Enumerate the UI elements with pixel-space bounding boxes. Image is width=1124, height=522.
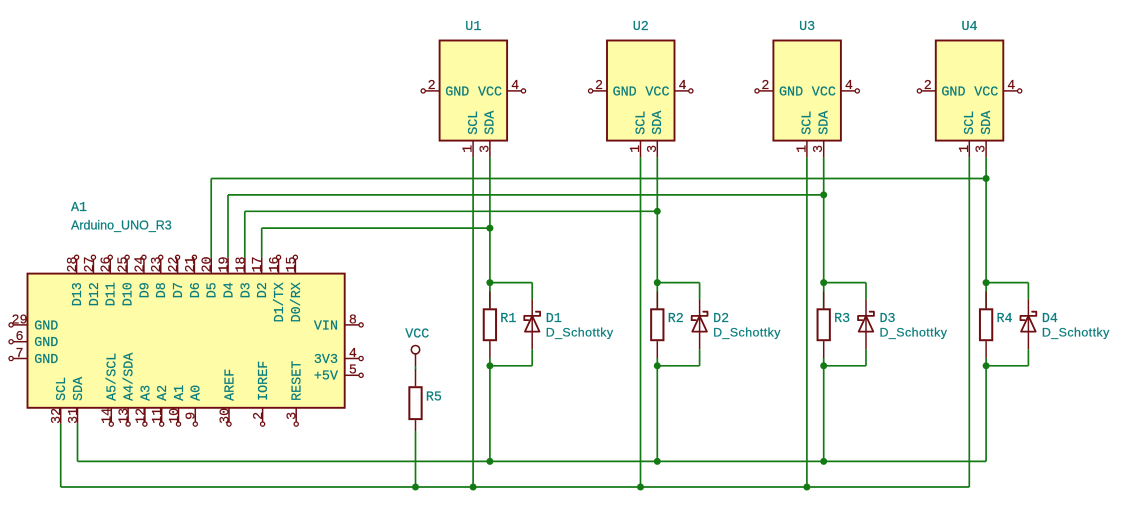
IC U4 body (936, 41, 1004, 141)
svg-text:5: 5 (349, 364, 357, 379)
U2 pin 3 (SDA) bottom (646, 110, 666, 158)
svg-text:18: 18 (234, 256, 249, 272)
wire D2 net: A1 pin17 to U1 SDA horizontal (262, 227, 490, 229)
wire D2 net: A1 pin17 to U1 SDA vertical (261, 228, 263, 258)
U4 reference label (962, 20, 978, 35)
wire U1 node down to SDA bus (489, 366, 491, 462)
wire node to D2 top (657, 283, 699, 300)
U2 pin 4 (VCC) right (645, 79, 693, 100)
resistor R2 (651, 283, 663, 366)
svg-text:31: 31 (67, 408, 82, 424)
svg-text:GND: GND (445, 85, 469, 100)
wire SDA bus horizontal (78, 460, 987, 462)
svg-text:GND: GND (34, 319, 58, 334)
A1 value Arduino_UNO_R3 (71, 219, 172, 233)
junction SDA bus at (824,461) (820, 458, 827, 465)
wire U3 SDA pin down to node (823, 157, 825, 282)
svg-text:U2: U2 (633, 20, 649, 35)
svg-text:A4/SDA: A4/SDA (123, 352, 138, 401)
D1 value D_Schottky (546, 326, 614, 340)
diode D2 (Schottky) (692, 299, 708, 349)
svg-text:9: 9 (185, 412, 200, 420)
svg-text:12: 12 (134, 408, 149, 424)
svg-text:R4: R4 (997, 312, 1013, 327)
U2 pin 2 (GND) left (589, 79, 637, 100)
svg-text:2: 2 (924, 79, 932, 94)
svg-text:D3: D3 (239, 282, 254, 298)
junction SCL bus at (640,487) (637, 484, 644, 491)
IC U2 body (607, 41, 675, 141)
svg-text:SCL: SCL (55, 377, 70, 401)
svg-text:U1: U1 (465, 20, 481, 35)
junction R3 top node (820, 279, 827, 286)
svg-text:GND: GND (34, 353, 58, 368)
A1 pin 8 (VIN) right (314, 313, 363, 334)
svg-text:7: 7 (15, 347, 23, 362)
wire VCC to R5 (415, 366, 417, 370)
U3 reference label (799, 20, 815, 35)
wire U2 node down to SDA bus (656, 366, 658, 462)
wire U4 SCL pin down to SCL bus (968, 157, 970, 487)
svg-text:VCC: VCC (974, 85, 998, 100)
wire D3 bottom to node (824, 349, 866, 366)
svg-text:A5/SCL: A5/SCL (106, 353, 121, 401)
A1 pin 30 (AREF) bottom (218, 369, 238, 426)
svg-text:19: 19 (217, 256, 232, 272)
wire SCL net from A1 pin32 down (60, 424, 62, 487)
svg-text:D4: D4 (222, 282, 237, 298)
wire node to D1 top (490, 283, 532, 300)
svg-text:1: 1 (795, 145, 810, 153)
resistor R4 (980, 283, 992, 366)
U1 pin 1 (SCL) bottom (462, 111, 482, 158)
svg-text:1: 1 (958, 145, 973, 153)
A1 pin 16 (D1/TX) top (268, 255, 288, 322)
svg-text:SDA: SDA (484, 110, 499, 135)
D2 value D_Schottky (713, 326, 781, 340)
svg-text:2: 2 (428, 79, 436, 94)
junction R1 top node (486, 279, 493, 286)
svg-text:RESET: RESET (291, 361, 306, 401)
diode D4 (Schottky) (1021, 299, 1037, 349)
svg-text:D5: D5 (206, 282, 221, 298)
svg-text:R1: R1 (500, 312, 516, 327)
svg-text:29: 29 (11, 313, 27, 328)
svg-text:R2: R2 (668, 312, 684, 327)
svg-text:A1: A1 (71, 201, 87, 216)
IC U1 body (440, 41, 508, 141)
svg-text:D0/RX: D0/RX (290, 282, 305, 322)
svg-text:D_Schottky: D_Schottky (1042, 326, 1110, 340)
diode D1 (Schottky) (524, 299, 540, 349)
U1 pin 3 (SDA) bottom (478, 110, 498, 158)
svg-text:VCC: VCC (812, 85, 836, 100)
svg-text:4: 4 (511, 79, 519, 94)
svg-text:2: 2 (595, 79, 603, 94)
svg-text:GND: GND (779, 85, 803, 100)
power symbol VCC (405, 328, 429, 367)
svg-text:A3: A3 (139, 385, 154, 401)
svg-text:VCC: VCC (405, 328, 429, 343)
svg-text:D_Schottky: D_Schottky (880, 326, 948, 340)
junction R4 bottom node (983, 362, 990, 369)
svg-text:D13: D13 (71, 282, 86, 306)
svg-text:3V3: 3V3 (314, 353, 338, 368)
svg-text:3: 3 (478, 145, 493, 153)
svg-text:D9: D9 (138, 282, 153, 298)
wire U2 SDA pin down to node (656, 157, 658, 282)
svg-text:AREF: AREF (223, 369, 238, 401)
A1 pin 21 (D6) top (184, 255, 204, 298)
svg-text:GND: GND (613, 85, 637, 100)
svg-text:3: 3 (812, 145, 827, 153)
wire SCL bus horizontal (61, 486, 970, 488)
wire D3 net: A1 pin18 to U2 SDA horizontal (245, 210, 658, 212)
svg-text:A0: A0 (190, 385, 205, 401)
svg-text:3: 3 (286, 412, 301, 420)
svg-text:32: 32 (50, 408, 65, 424)
A1 pin 26 (D11) top (100, 255, 120, 306)
svg-text:4: 4 (845, 79, 853, 94)
svg-text:4: 4 (678, 79, 686, 94)
wire U4 node down to SDA bus (985, 366, 987, 462)
wire D4 net: A1 pin19 to U3 SDA vertical (227, 195, 229, 258)
svg-text:D10: D10 (121, 282, 136, 306)
wire D4 net: A1 pin19 to U3 SDA horizontal (228, 194, 824, 196)
D3 value D_Schottky (880, 326, 948, 340)
U2 pin 1 (SCL) bottom (629, 111, 649, 158)
svg-text:1: 1 (462, 145, 477, 153)
svg-text:D7: D7 (172, 282, 187, 298)
U4 pin 2 (GND) left (917, 79, 965, 100)
junction at (490,228) (486, 225, 493, 232)
junction R2 bottom node (654, 362, 661, 369)
svg-text:SCL: SCL (963, 111, 978, 135)
svg-text:D12: D12 (88, 282, 103, 306)
svg-text:GND: GND (941, 85, 965, 100)
U4 pin 1 (SCL) bottom (958, 111, 978, 158)
svg-text:4: 4 (349, 347, 357, 362)
wire node to D3 top (824, 283, 866, 300)
svg-text:R5: R5 (426, 390, 442, 405)
U1 reference label (465, 20, 481, 35)
A1 pin 22 (D7) top (167, 255, 187, 298)
resistor R5 (409, 369, 421, 431)
svg-text:10: 10 (168, 408, 183, 424)
A1 pin 31 (SDA) bottom (67, 376, 87, 424)
D4 value D_Schottky (1042, 326, 1110, 340)
svg-text:14: 14 (101, 408, 116, 424)
svg-text:SDA: SDA (651, 110, 666, 135)
A1 pin 14 (A5/SCL) bottom (101, 353, 121, 427)
junction at (986,178) (983, 175, 990, 182)
A1 pin 15 (D0/RX) top (285, 255, 305, 322)
A1 pin 20 (D5) top (201, 256, 221, 298)
svg-text:11: 11 (151, 408, 166, 424)
U1 pin 2 (GND) left (421, 79, 469, 100)
svg-text:D_Schottky: D_Schottky (713, 326, 781, 340)
D1 label (546, 312, 562, 327)
svg-text:VCC: VCC (645, 85, 669, 100)
wire D4 bottom to node (986, 349, 1028, 366)
A1 pin 27 (D12) top (83, 255, 103, 306)
A1 pin 18 (D3) top (234, 256, 254, 298)
wire U3 SCL pin down to SCL bus (806, 157, 808, 487)
svg-text:6: 6 (15, 330, 23, 345)
svg-text:SDA: SDA (72, 376, 87, 401)
svg-text:GND: GND (34, 336, 58, 351)
svg-text:20: 20 (201, 256, 216, 272)
svg-text:D_Schottky: D_Schottky (546, 326, 614, 340)
IC U3 body (773, 41, 841, 141)
junction R4 top node (983, 279, 990, 286)
svg-text:SCL: SCL (801, 111, 816, 135)
svg-text:1: 1 (629, 145, 644, 153)
A1 pin 6 (GND) left (9, 330, 58, 351)
R3 label (834, 312, 850, 327)
svg-text:D1/TX: D1/TX (273, 282, 288, 322)
D2 label (713, 312, 729, 327)
svg-text:SDA: SDA (980, 110, 995, 135)
junction R5 at SCL bus (412, 484, 419, 491)
svg-text:3: 3 (646, 145, 661, 153)
wire U4 SDA pin down to node (985, 157, 987, 282)
svg-text:VIN: VIN (314, 319, 338, 334)
R4 label (997, 312, 1013, 327)
junction R3 bottom node (820, 362, 827, 369)
junction at (824,195) (820, 191, 827, 198)
Arduino A1 body (28, 274, 345, 408)
A1 pin 19 (D4) top (217, 256, 237, 298)
wire U1 SDA pin down to node (489, 157, 491, 282)
A1 pin 10 (A1) bottom (168, 385, 188, 426)
A1 pin 28 (D13) top (66, 255, 86, 306)
svg-text:4: 4 (1007, 79, 1015, 94)
svg-text:SDA: SDA (818, 110, 833, 135)
wire U1 SCL pin down to SCL bus (472, 157, 474, 487)
U3 pin 4 (VCC) right (812, 79, 860, 100)
svg-text:13: 13 (118, 408, 133, 424)
svg-text:2: 2 (761, 79, 769, 94)
D3 label (880, 312, 896, 327)
A1 pin 12 (A3) bottom (134, 385, 154, 426)
A1 reference label (71, 201, 87, 216)
U1 pin 4 (VCC) right (478, 79, 526, 100)
diode D3 (Schottky) (858, 299, 874, 349)
wire D1 bottom to node (490, 349, 532, 366)
svg-text:U4: U4 (962, 20, 978, 35)
A1 pin 23 (D8) top (150, 255, 170, 298)
resistor R1 (484, 283, 496, 366)
junction at (657,211) (654, 208, 661, 215)
A1 pin 11 (A2) bottom (151, 385, 171, 426)
wire R5 down to SCL bus (415, 431, 417, 487)
svg-text:U3: U3 (799, 20, 815, 35)
svg-text:VCC: VCC (478, 85, 502, 100)
A1 pin 17 (D2) top (251, 256, 271, 298)
U3 pin 3 (SDA) bottom (812, 110, 832, 158)
U3 pin 2 (GND) left (755, 79, 803, 100)
wire U3 node down to SDA bus (823, 366, 825, 462)
U4 pin 3 (SDA) bottom (975, 110, 995, 158)
U2 reference label (633, 20, 649, 35)
A1 pin 3 (RESET) bottom (286, 361, 306, 426)
svg-text:A1: A1 (173, 385, 188, 401)
junction SDA bus at (490,461) (486, 458, 493, 465)
junction SCL bus at (473,487) (470, 484, 477, 491)
A1 pin 13 (A4/SDA) bottom (118, 352, 138, 426)
svg-text:2: 2 (252, 412, 267, 420)
svg-text:+5V: +5V (314, 370, 338, 385)
A1 pin 29 (GND) left (9, 313, 58, 334)
resistor R3 (818, 283, 830, 366)
svg-text:SCL: SCL (467, 111, 482, 135)
svg-text:IOREF: IOREF (257, 361, 272, 401)
junction SCL bus at (807,487) (803, 484, 810, 491)
junction R2 top node (654, 279, 661, 286)
svg-text:8: 8 (349, 313, 357, 328)
R2 label (668, 312, 684, 327)
A1 pin 24 (D9) top (133, 255, 153, 298)
wire D2 bottom to node (657, 349, 699, 366)
wire U2 SCL pin down to SCL bus (640, 157, 642, 487)
svg-text:A2: A2 (156, 385, 171, 401)
R5 label (426, 390, 442, 405)
wire SDA net from A1 pin31 down (77, 424, 79, 462)
A1 pin 9 (A0) bottom (185, 385, 205, 426)
A1 pin 7 (GND) left (9, 347, 58, 368)
A1 pin 5 (+5V) right (314, 364, 363, 385)
svg-text:D8: D8 (155, 282, 170, 298)
junction SDA bus at (657,461) (654, 458, 661, 465)
svg-text:30: 30 (218, 408, 233, 424)
D4 label (1042, 312, 1058, 327)
wire D5 net: A1 pin20 to U4 SDA vertical (210, 179, 212, 258)
svg-text:3: 3 (975, 145, 990, 153)
wire D5 net: A1 pin20 to U4 SDA horizontal (211, 178, 986, 180)
svg-text:R3: R3 (834, 312, 850, 327)
R1 label (500, 312, 516, 327)
A1 pin 4 (3V3) right (314, 347, 363, 368)
A1 pin 25 (D10) top (116, 255, 136, 306)
svg-text:17: 17 (251, 256, 266, 272)
svg-text:D6: D6 (189, 282, 204, 298)
U4 pin 4 (VCC) right (974, 79, 1022, 100)
svg-text:SCL: SCL (634, 111, 649, 135)
junction R1 bottom node (486, 362, 493, 369)
A1 pin 2 (IOREF) bottom (252, 361, 272, 426)
svg-text:D2: D2 (256, 282, 271, 298)
U3 pin 1 (SCL) bottom (795, 111, 815, 158)
wire node to D4 top (986, 283, 1028, 300)
svg-text:Arduino_UNO_R3: Arduino_UNO_R3 (71, 219, 172, 233)
A1 pin 32 (SCL) bottom (50, 377, 70, 424)
svg-text:D11: D11 (105, 282, 120, 306)
wire D3 net: A1 pin18 to U2 SDA vertical (244, 211, 246, 257)
